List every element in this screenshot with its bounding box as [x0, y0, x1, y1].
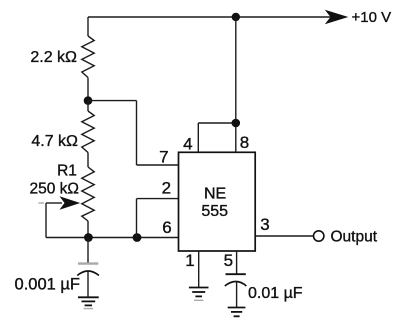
svg-text:4: 4 [183, 134, 192, 153]
node junction pin8 [232, 119, 241, 128]
svg-text:3: 3 [260, 215, 269, 234]
capacitor C1 curved plate [77, 271, 99, 276]
wire R1 wiper horizontal [46, 202, 62, 204]
wire below 2.2k [87, 78, 89, 101]
svg-text:6: 6 [162, 218, 171, 237]
ground below C2 [228, 308, 246, 317]
+10V arrowhead [325, 10, 349, 24]
wire C2 to ground [236, 282, 238, 308]
svg-text:+10 V: +10 V [352, 9, 392, 26]
svg-text:0.001 µF: 0.001 µF [15, 275, 80, 293]
capacitor C2 curved plate [225, 282, 247, 287]
wire below R1 [87, 221, 89, 238]
node junction dot on rail [232, 13, 240, 21]
svg-text:2.2 kΩ: 2.2 kΩ [30, 49, 77, 66]
svg-text:8: 8 [240, 133, 249, 152]
potentiometer R1 250 kOhm resistor body [82, 167, 94, 221]
ground at pin 1 [189, 288, 209, 301]
svg-text:5: 5 [224, 251, 233, 270]
wire junction A to pin7 branch horizontal [88, 100, 137, 102]
wire R1 wiper lead tick [39, 202, 45, 204]
svg-text:0.01 µF: 0.01 µF [248, 285, 303, 302]
wire bottom horizontal to pin 6 [46, 237, 179, 239]
svg-text:2: 2 [162, 179, 171, 198]
wire pin 2 stub [137, 198, 179, 200]
resistor 4.7 kOhm [82, 111, 94, 153]
svg-text:4.7 kΩ: 4.7 kΩ [31, 133, 78, 150]
capacitor C2 0.01uF top plate [226, 273, 246, 275]
op-amp U1 NE555 IC box [179, 152, 256, 251]
wire pin 3 output [255, 235, 313, 237]
wire pin 1 stub [198, 251, 200, 288]
node junction A [84, 96, 93, 105]
resistor 2.2 kOhm [82, 36, 94, 78]
R1 wiper arrowhead [60, 196, 81, 210]
wire R1 junction down to C1 [87, 238, 89, 264]
wire left rail top [87, 17, 89, 36]
svg-text:1: 1 [185, 251, 194, 270]
svg-text:R1: R1 [57, 162, 77, 179]
wire pin 8 vertical from rail [235, 17, 237, 152]
svg-text:NE: NE [204, 186, 226, 203]
output terminal circle [314, 231, 324, 241]
wire pin 7 stub [137, 164, 179, 166]
wire pin4 to pin8 jumper [198, 122, 236, 124]
wire between 4.7k and R1 [87, 153, 89, 168]
wire pin2 branch vertical [136, 199, 138, 238]
wire +10V top rail [88, 16, 342, 18]
svg-text:250 kΩ: 250 kΩ [29, 180, 79, 197]
svg-text:Output: Output [331, 228, 378, 245]
ground below C1 [78, 297, 99, 308]
capacitor C1 0.001uF top plate [78, 262, 98, 264]
wire pin7 branch vertical [136, 101, 138, 165]
wire pin 4 stub [197, 123, 199, 152]
node junction at pin2 branch [133, 233, 142, 242]
svg-text:7: 7 [159, 148, 168, 167]
wire pin 5 stub [236, 251, 238, 274]
wire junction A down [87, 101, 89, 111]
svg-text:555: 555 [201, 203, 228, 220]
node junction at R1 bottom [84, 233, 93, 242]
wire wiper return vertical [45, 203, 47, 238]
wire C1 to ground [87, 271, 89, 297]
